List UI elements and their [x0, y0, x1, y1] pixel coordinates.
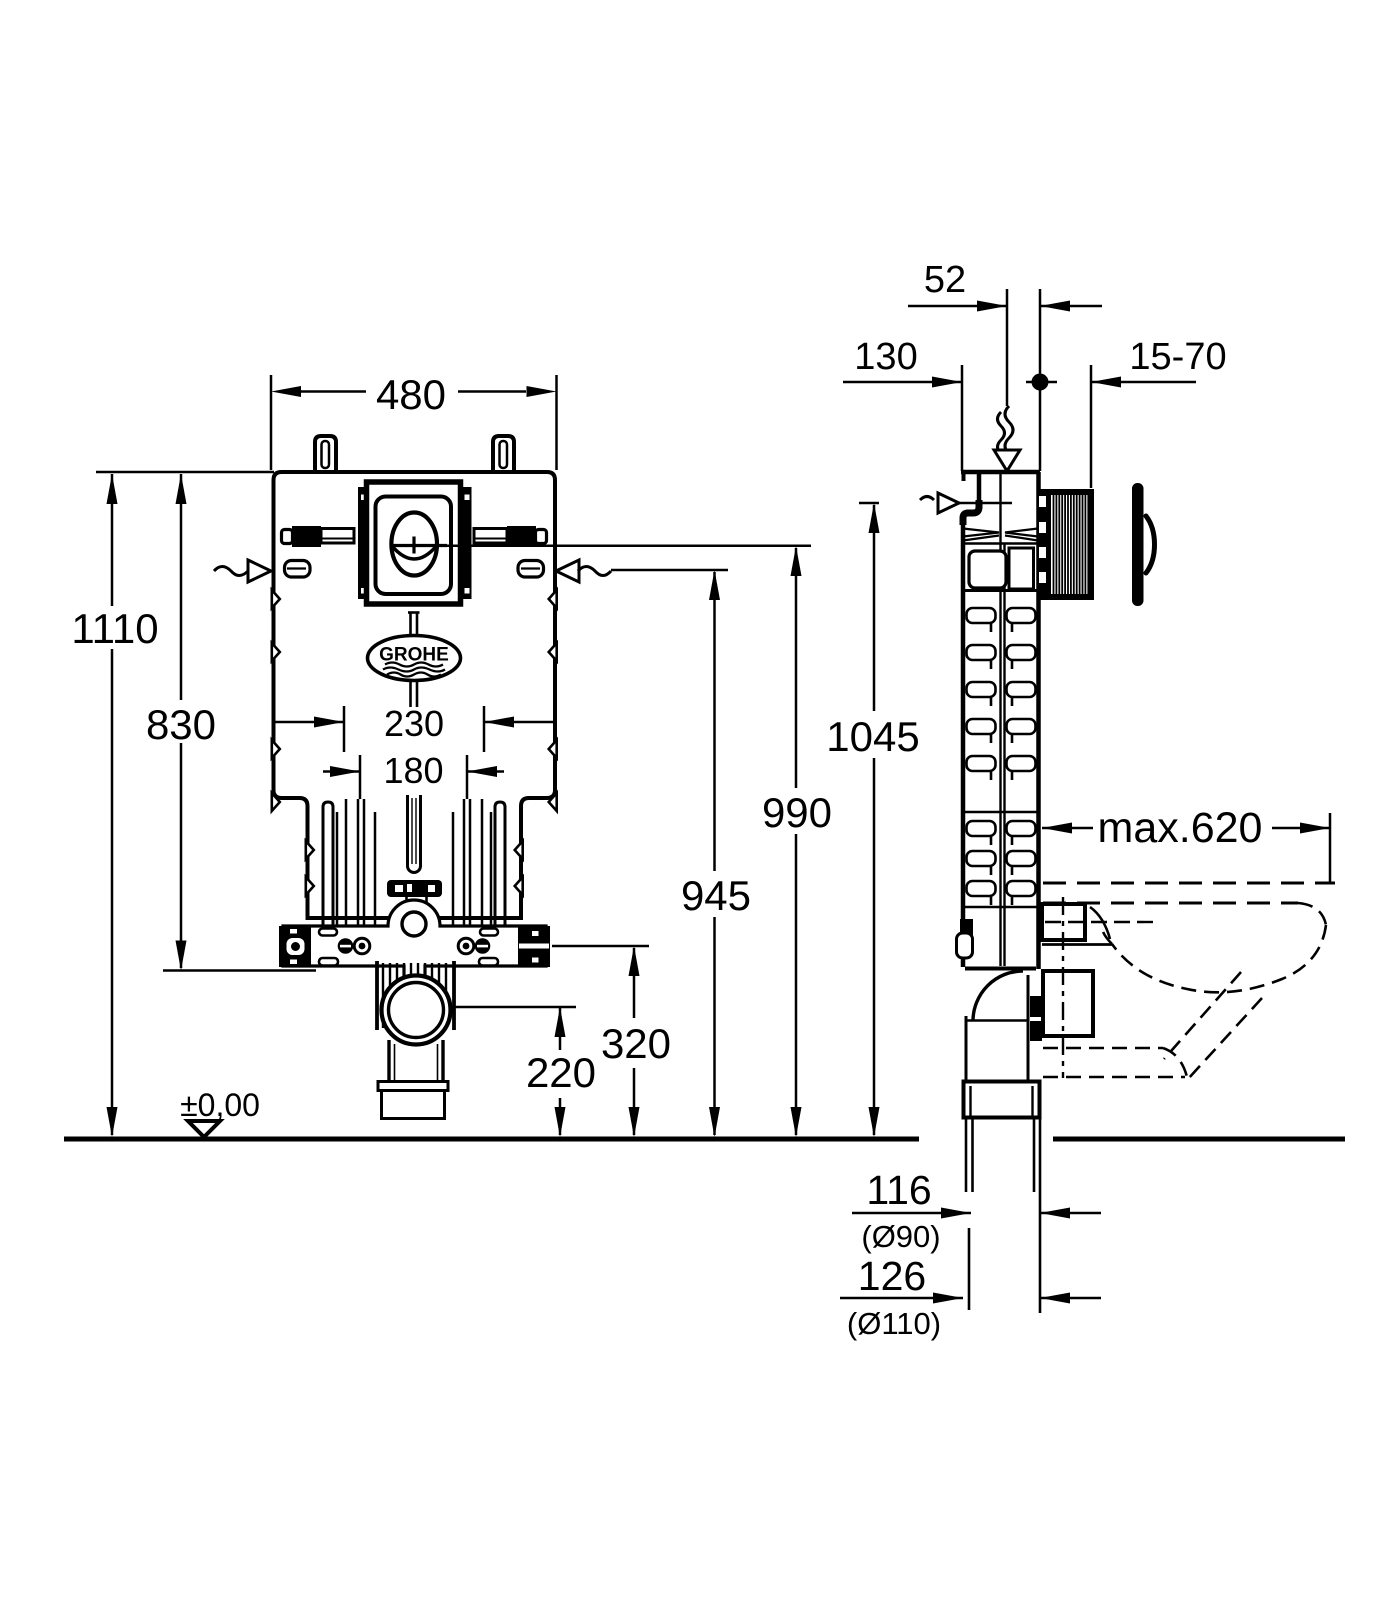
dim 945 tick line [611, 569, 728, 572]
dim 1110 line [111, 474, 114, 606]
drain pipe end sleeve [378, 1082, 448, 1091]
water supply wavy arrow right [556, 560, 579, 582]
drain outlet circle [382, 976, 451, 1045]
outlet sleeve [964, 1082, 1040, 1118]
svg-text:1045: 1045 [826, 713, 919, 760]
tank body outline [963, 474, 979, 967]
svg-text:116: 116 [866, 1167, 931, 1213]
water supply wavy arrow left [214, 567, 248, 576]
bowl connector box upper [1042, 904, 1085, 940]
svg-text:130: 130 [854, 336, 917, 378]
internal supply pipes narrow section [323, 799, 505, 926]
drain circle centerline [418, 1006, 576, 1009]
dim 220 line [559, 1008, 562, 1050]
tank top plate [961, 470, 1040, 475]
dim 320 line [633, 948, 636, 1018]
label plate [387, 880, 442, 897]
slot opening right [518, 561, 544, 578]
plate centerline crosshair [412, 537, 415, 554]
water inlet arrow into tank [994, 450, 1020, 471]
svg-text:320: 320 [601, 1020, 671, 1067]
dim 230 [275, 706, 553, 752]
ground line left segment [64, 1137, 919, 1142]
connector centerline vertical [1062, 897, 1064, 1078]
dim 320 tick [552, 945, 649, 948]
below ground pipe [966, 1119, 1040, 1313]
GROHE logo oval [368, 636, 461, 681]
dim 1045 tick [859, 502, 879, 505]
svg-text:1110: 1110 [71, 605, 158, 652]
svg-text:830: 830 [146, 701, 216, 748]
dim arrowheads left view [271, 386, 301, 397]
svg-text:220: 220 [526, 1049, 596, 1096]
dim 830 line [180, 474, 183, 700]
ground datum triangle [188, 1121, 220, 1137]
drain pipe down [389, 1040, 443, 1081]
svg-text:52: 52 [924, 259, 966, 301]
tank seam bowtie [963, 529, 1038, 544]
mounting tab left [315, 436, 336, 472]
dim 480 line [299, 390, 366, 393]
flush plate side rails [358, 487, 368, 599]
dim 990 line [795, 548, 798, 788]
wall anchor rod right [474, 529, 507, 544]
flush plate frame [367, 482, 461, 604]
ground line right segment [1053, 1137, 1345, 1142]
GROHE logo stem bottom [409, 680, 412, 707]
flush plate inner panel [376, 497, 452, 595]
svg-text:945: 945 [681, 872, 751, 919]
flush pipe throat [405, 897, 408, 906]
svg-text:(Ø110): (Ø110) [847, 1306, 941, 1341]
flush button oval [391, 513, 437, 576]
tank bottom [965, 967, 1036, 971]
bracket slots [319, 929, 498, 966]
dim 1045 line [873, 505, 876, 711]
flush button split arc [392, 546, 436, 559]
svg-text:(Ø90): (Ø90) [861, 1219, 940, 1254]
svg-text:15-70: 15-70 [1129, 336, 1226, 378]
drain elbow [973, 971, 1023, 1021]
dim 480 extension lines [270, 375, 273, 470]
dim 180 [323, 755, 504, 799]
svg-text:480: 480 [376, 371, 446, 418]
mounting tab right [493, 436, 514, 472]
dim 830 bottom tick [163, 969, 316, 972]
connector centerline horizontal [1045, 921, 1160, 923]
water inlet steam symbol [1005, 406, 1013, 454]
svg-text:±0,00: ±0,00 [180, 1087, 260, 1123]
top reference tick line [96, 471, 274, 474]
svg-text:180: 180 [383, 750, 443, 791]
tank ribs [963, 608, 1038, 907]
bracket bolts right [458, 938, 474, 954]
dim 945 line [713, 572, 716, 871]
inspection window [969, 551, 1006, 588]
wall anchor rod left [321, 529, 354, 544]
WC bowl dashed outline [1043, 883, 1335, 903]
drain corrugated collar [383, 963, 446, 1028]
tank inner vertical line [999, 472, 1001, 966]
tank bottom lug [960, 919, 973, 936]
frame edge break marks left [272, 590, 557, 895]
GROHE logo waves [385, 663, 443, 667]
slot opening left [285, 561, 311, 578]
svg-text:990: 990 [762, 789, 832, 836]
flush pipe connector ring [395, 905, 433, 943]
bracket end cap left [279, 926, 311, 967]
wall face reference dot [1026, 381, 1057, 384]
support bracket bar [283, 900, 546, 978]
cistern frame body outline [274, 472, 556, 918]
svg-text:max.620: max.620 [1098, 804, 1263, 852]
GROHE logo stem top [409, 612, 412, 637]
bracket bolts left [338, 938, 354, 954]
supply inlet crosshair [920, 497, 934, 501]
window side box [1009, 548, 1034, 589]
narrow section break marks [306, 841, 314, 859]
threaded sleeve knurled adapter [1037, 489, 1094, 600]
svg-text:126: 126 [858, 1253, 926, 1299]
frame edge break marks right [549, 590, 557, 608]
central flush pipe [408, 795, 421, 872]
svg-text:230: 230 [384, 703, 444, 744]
elbow connector blocks [1030, 996, 1042, 1017]
flush plate side view [1132, 483, 1144, 606]
bracket end cap right [518, 926, 550, 967]
bowl connector box lower [1043, 971, 1093, 1036]
centerline to 990 dim [447, 545, 811, 548]
